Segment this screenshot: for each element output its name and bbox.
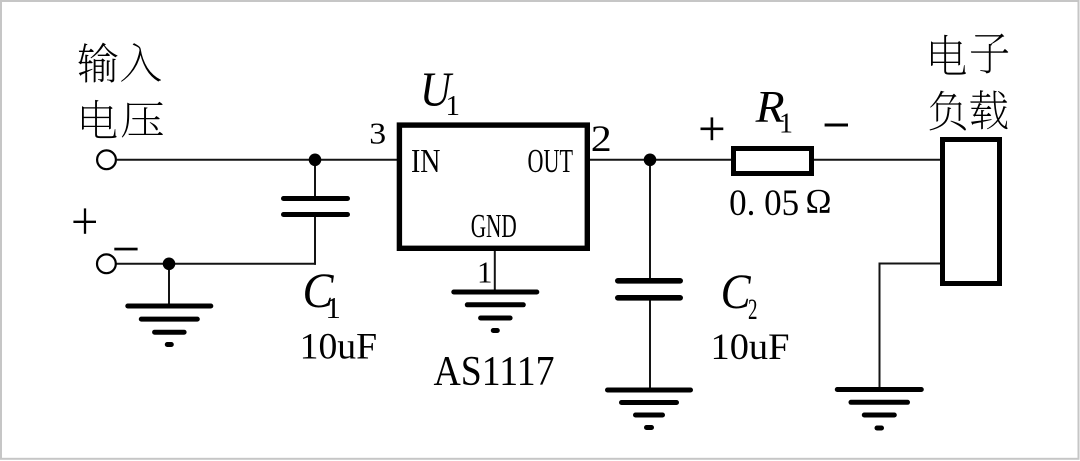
capacitor C2 plates xyxy=(618,281,680,298)
wire: top junction down to C1 top plate xyxy=(314,160,316,198)
regulator U1 AS1117 body xyxy=(399,125,587,248)
svg-text:C: C xyxy=(721,263,752,319)
svg-text:1: 1 xyxy=(446,90,461,122)
wire: load return, left then down to ground xyxy=(880,264,941,388)
polarity - (R1 right) xyxy=(825,124,848,127)
svg-text:OUT: OUT xyxy=(528,143,574,180)
node: junction dot at input ground tap xyxy=(163,258,176,271)
polarity + (input) xyxy=(73,208,96,233)
wire: C2 bottom plate lead to ground xyxy=(649,298,651,388)
polarity + (R1 left) xyxy=(701,117,724,140)
label 负载 (load) xyxy=(930,90,1008,130)
wire: input bottom rail xyxy=(116,263,316,265)
svg-text:3: 3 xyxy=(369,117,386,151)
label 输入 (input) xyxy=(78,43,161,83)
label 电子 (electronic) xyxy=(931,33,1008,74)
ground (input) xyxy=(128,306,211,345)
svg-text:1: 1 xyxy=(779,109,793,140)
svg-text:10uF: 10uF xyxy=(300,326,378,367)
input terminal circle (top) xyxy=(97,150,116,169)
wire: input top rail to U1 IN pin xyxy=(117,159,397,161)
svg-text:0. 05: 0. 05 xyxy=(729,183,799,224)
svg-text:1: 1 xyxy=(477,255,493,290)
svg-text:1: 1 xyxy=(325,290,341,325)
svg-text:GND: GND xyxy=(471,208,517,245)
wire: bottom junction down to input ground xyxy=(168,264,170,304)
svg-text:AS1117: AS1117 xyxy=(434,349,555,395)
svg-text:2: 2 xyxy=(591,119,612,160)
wire: U1 pin 1 GND lead xyxy=(494,250,496,290)
wire: U1 OUT pin to load box xyxy=(590,159,940,161)
wire: C1 bottom plate lead down xyxy=(314,215,316,265)
polarity - (input) xyxy=(114,248,137,251)
ground (U1 pin 1) xyxy=(454,292,537,331)
svg-text:2: 2 xyxy=(748,293,758,326)
electronic load box xyxy=(943,140,1000,284)
svg-text:IN: IN xyxy=(411,143,441,180)
node: junction dot at C2 tap xyxy=(644,154,657,167)
label 电压 (voltage) xyxy=(82,100,163,138)
wire: out junction down to C2 top plate xyxy=(649,160,651,280)
resistor R1 body xyxy=(734,149,812,174)
ground (C2) xyxy=(608,390,691,428)
capacitor C1 plates xyxy=(284,199,348,215)
node: junction dot at C1 tap xyxy=(309,154,322,167)
svg-text:Ω: Ω xyxy=(806,182,832,221)
input terminal circle (bottom) xyxy=(97,254,116,273)
svg-text:10uF: 10uF xyxy=(711,327,790,368)
ground (load) xyxy=(837,390,921,429)
